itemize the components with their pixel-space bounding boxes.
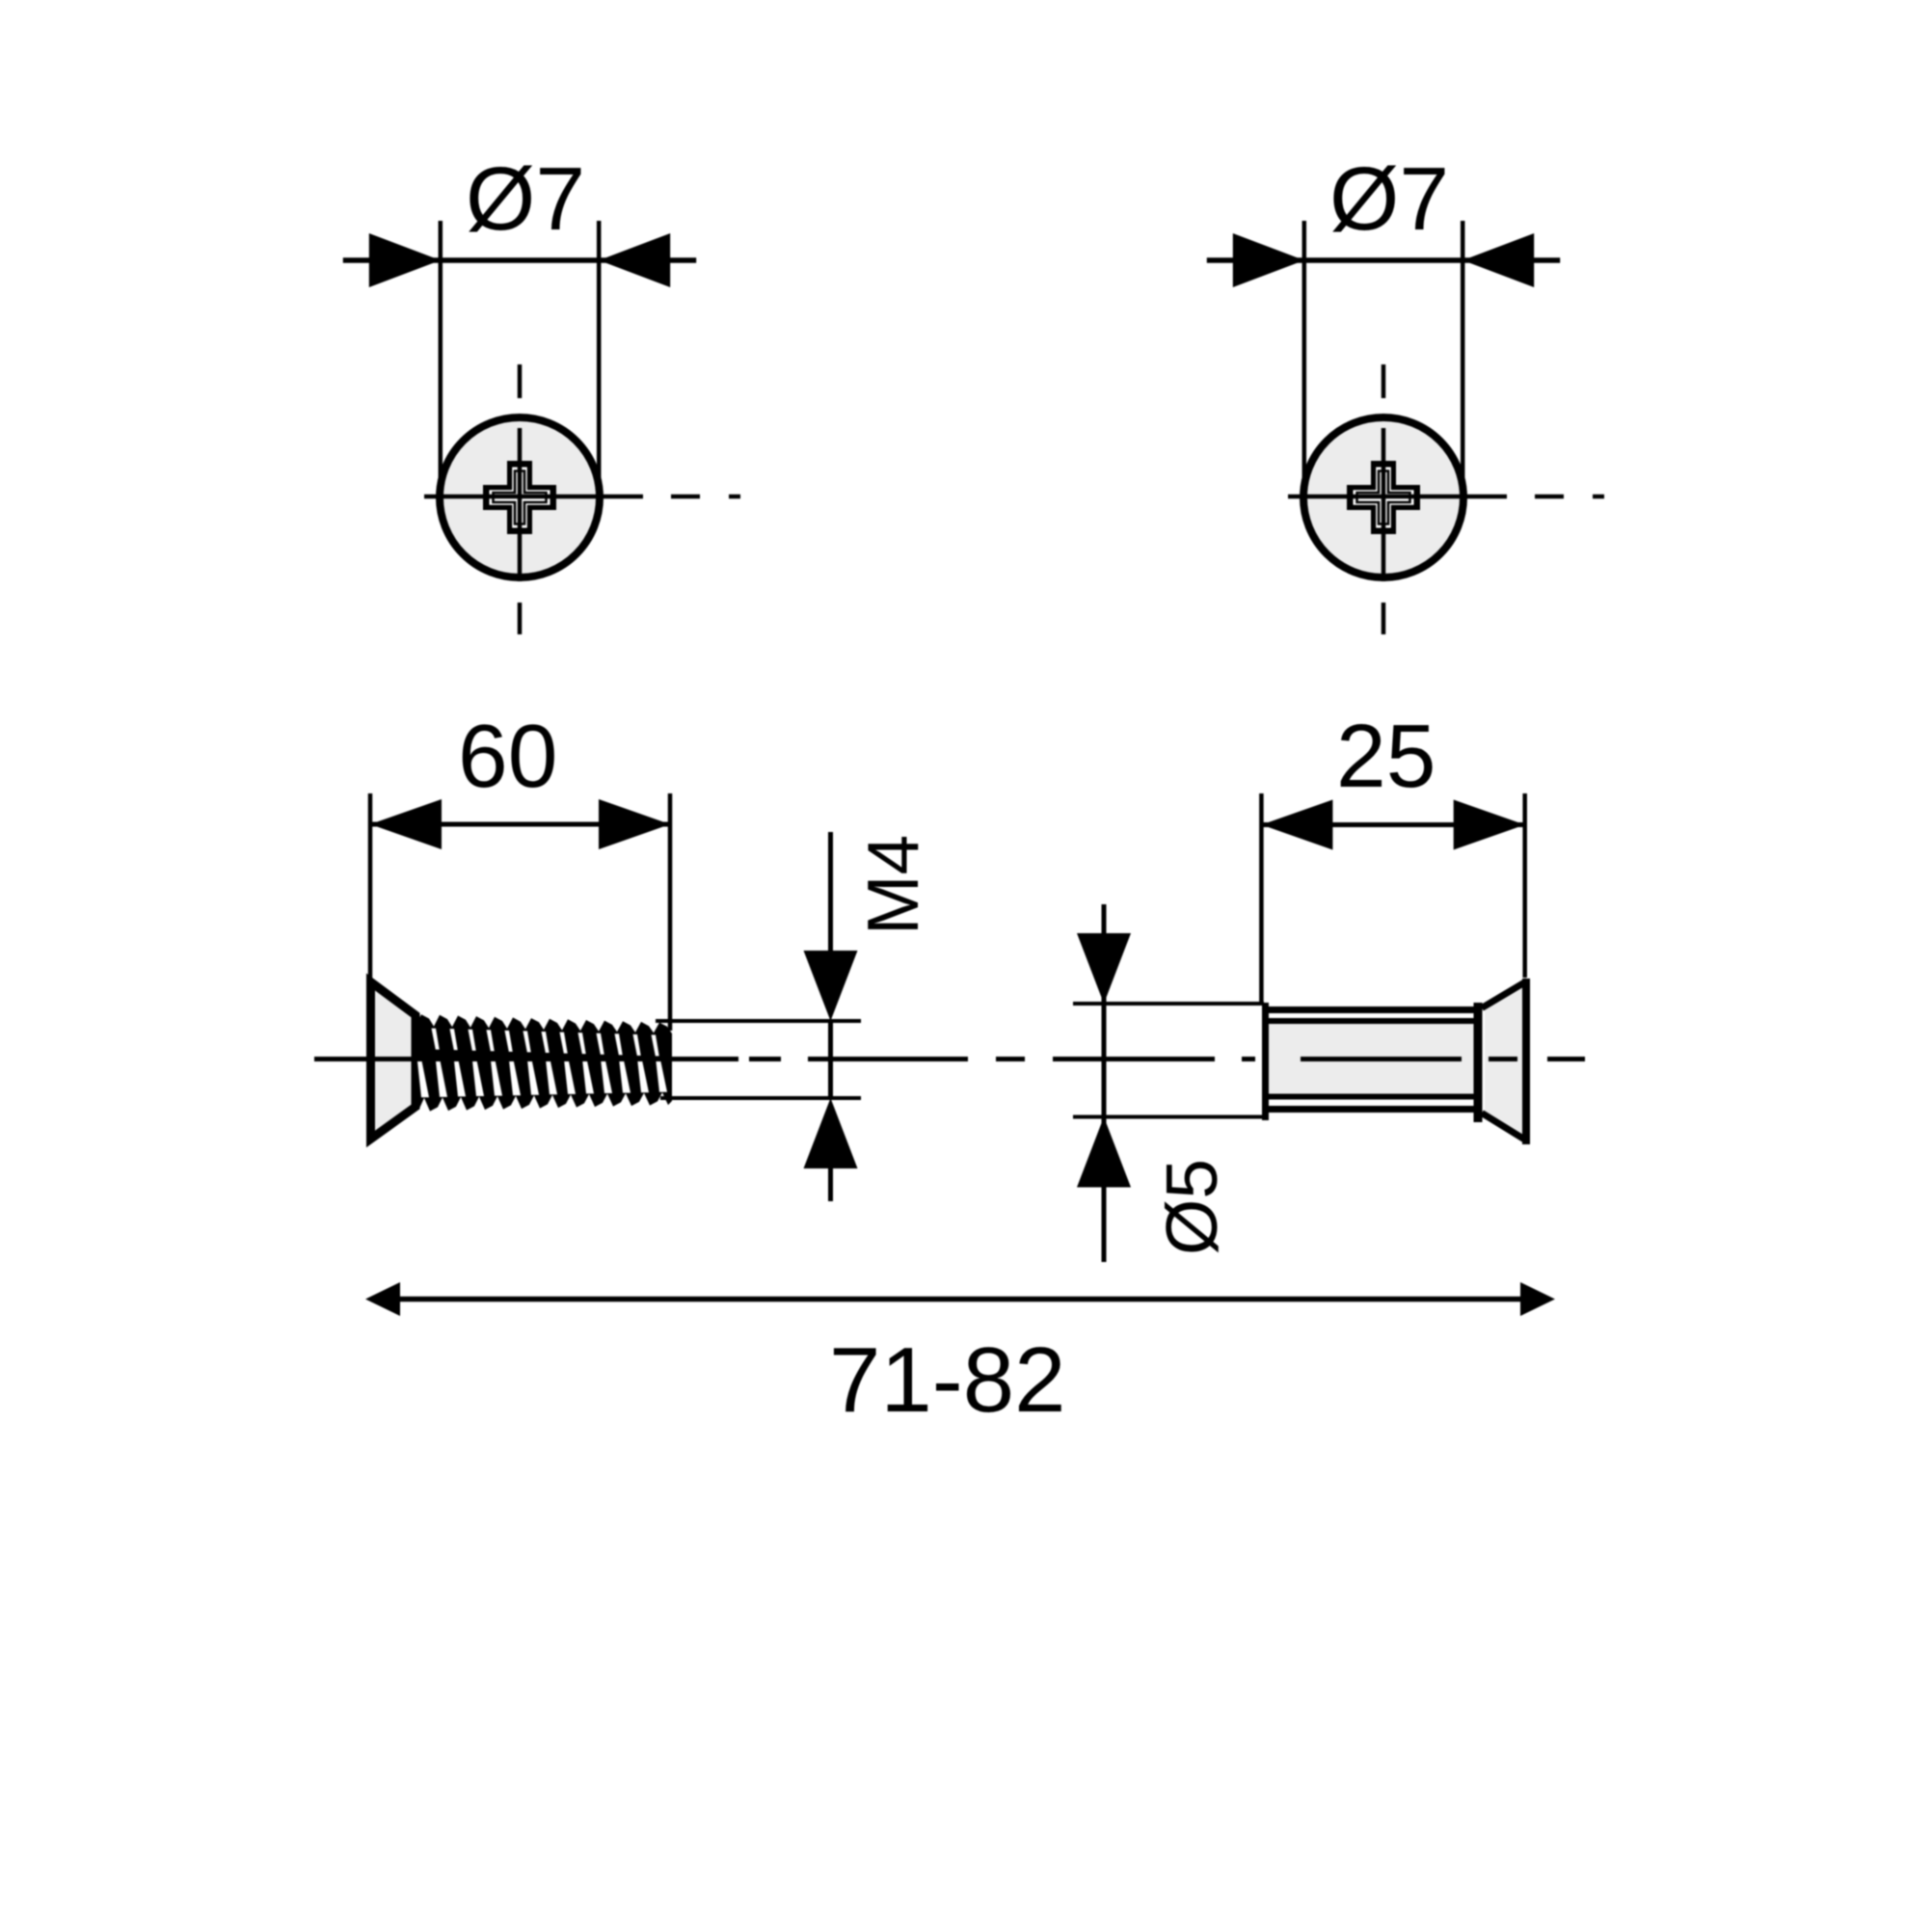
sleeve: left end face: [1262, 1003, 1269, 1120]
top view left: phillips cross outer: [483, 461, 556, 534]
top view right: extension lines: [1302, 221, 1307, 484]
screw: countersunk head: [371, 982, 416, 1140]
screw: M4 dimension line: [828, 832, 833, 953]
top view left: screw head circle: [440, 417, 600, 577]
axis centerline: [314, 1057, 738, 1061]
screw: M4 extension lines: [656, 1019, 861, 1023]
sleeve: body fill: [1269, 1024, 1482, 1093]
sleeve: 25 arrowheads: [1261, 800, 1332, 850]
sleeve: bore lines: [1269, 1018, 1482, 1024]
overall dimension line 71-82: [393, 1297, 1527, 1302]
screw: 60 dimension line: [370, 822, 670, 827]
sleeve: O5 dimension line: [1102, 904, 1107, 1262]
sleeve: O5 arrowheads: [1077, 933, 1131, 1004]
screw: 60 arrowheads: [370, 799, 442, 849]
svg-text:Ø5: Ø5: [1151, 1159, 1232, 1255]
sleeve: 25 dimension extension lines: [1259, 793, 1264, 1004]
sleeve: body outer edges: [1262, 1006, 1482, 1013]
top view right: phillips cross inner: [1357, 471, 1410, 524]
top view right: horizontal centerline: [1288, 495, 1507, 499]
svg-text:25: 25: [1336, 706, 1436, 806]
screw: 60 dimension extension lines: [368, 793, 373, 979]
svg-text:Ø7: Ø7: [1329, 148, 1449, 249]
svg-text:Ø7: Ø7: [466, 148, 585, 249]
screw: threaded shank: [416, 1014, 672, 1111]
top view left: vertical centerline: [518, 364, 523, 398]
top view right: screw head circle: [1303, 417, 1463, 577]
svg-text:60: 60: [458, 706, 557, 806]
sleeve: O5 extension lines: [1073, 1002, 1264, 1006]
screw: thread flank highlights: [432, 1029, 440, 1050]
top view right: dimension line O7: [1207, 257, 1560, 263]
svg-text:M4: M4: [852, 835, 933, 935]
sleeve: countersunk head: [1485, 983, 1526, 1140]
top view right: arrowheads O7: [1233, 233, 1304, 287]
top view left: dimension line O7: [343, 257, 696, 263]
top view right: phillips cross outer: [1347, 461, 1420, 534]
screw: M4 arrowheads: [804, 951, 858, 1021]
sleeve: head-body junction face: [1474, 1003, 1483, 1122]
svg-text:71-82: 71-82: [829, 1328, 1066, 1432]
top view right: vertical centerline: [1382, 364, 1386, 398]
top view left: extension lines: [439, 221, 443, 484]
overall dimension arrowheads: [365, 1282, 400, 1316]
top view left: phillips cross inner: [494, 471, 547, 524]
top view left: arrowheads O7: [369, 233, 441, 287]
top view left: horizontal centerline: [424, 495, 643, 499]
sleeve: 25 dimension line: [1261, 822, 1524, 827]
